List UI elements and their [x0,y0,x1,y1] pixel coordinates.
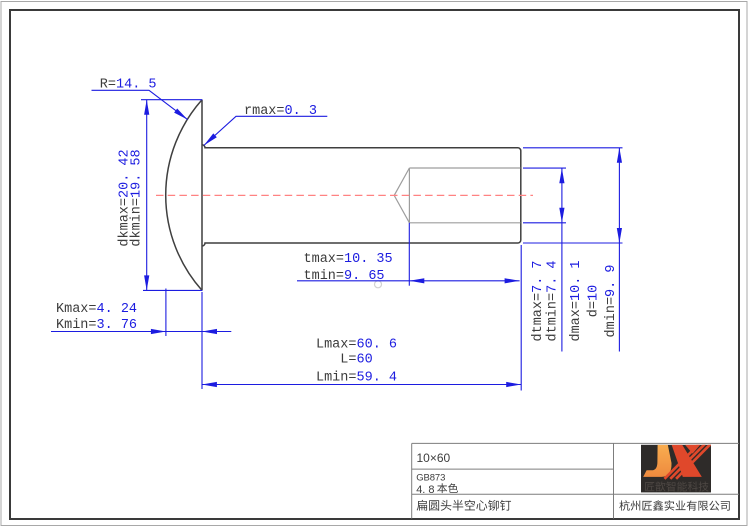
t extension line [408,223,410,286]
svg-text:Lmin=59. 4: Lmin=59. 4 [316,371,397,386]
svg-text:Kmin=3. 76: Kmin=3. 76 [56,318,137,333]
dk extension line top [141,99,202,101]
logo X stripes [665,444,700,479]
logo X main stroke [672,445,702,477]
title block row line 2 [412,493,739,495]
title block top line [412,442,739,444]
text product name [417,500,511,511]
svg-text:dkmin=19. 58: dkmin=19. 58 [129,149,144,246]
svg-text:rmax=0. 3: rmax=0. 3 [244,104,317,119]
title block left line [411,443,413,518]
dk extension line bottom [143,289,202,291]
R dimension leader [92,90,188,119]
hole bottom edge [409,222,520,224]
rivet head arc [166,100,202,291]
svg-text:Kmax=4. 24: Kmax=4. 24 [56,302,137,317]
rivet shank outline with fillets [202,145,521,246]
L dimension line [202,384,521,386]
svg-text:dtmin=7. 4: dtmin=7. 4 [545,260,560,341]
d dimension line [618,148,620,352]
logo letter J [643,445,671,477]
logo subtitle [645,481,708,491]
hole cone base line [408,168,410,223]
rmax dimension leader [204,116,327,145]
K dimension line [51,331,231,333]
title block divider [613,443,615,518]
L extension line right [520,245,522,391]
dt extension lines [523,167,566,169]
svg-text:d=10: d=10 [587,285,602,317]
text bense [437,483,458,493]
svg-text:dmax=10. 1: dmax=10. 1 [569,260,584,341]
svg-text:tmin=9. 65: tmin=9. 65 [304,269,385,284]
svg-text:Lmax=60. 6: Lmax=60. 6 [316,338,397,353]
svg-text:10×60: 10×60 [417,451,451,465]
artifact circle [375,281,382,288]
d extension lines [523,147,623,149]
logo X tip triangle [685,445,700,454]
svg-text:dtmax=7. 7: dtmax=7. 7 [531,260,546,341]
svg-text:L=60: L=60 [340,353,372,368]
svg-text:4. 8: 4. 8 [416,484,434,496]
dk dimension line [146,100,148,291]
title block row line 1 [412,468,614,470]
svg-text:dmin=9. 9: dmin=9. 9 [604,265,619,338]
hole drill cone [394,168,409,223]
t dimension line [297,280,520,282]
K extension line (arc apex) [165,289,167,337]
centerline [156,194,533,196]
hole top edge [409,167,520,169]
svg-text:R=14. 5: R=14. 5 [100,77,157,92]
svg-text:GB873: GB873 [416,473,445,484]
rivet head bearing face [201,100,203,291]
K/L extension line (head face) [201,292,203,389]
text company name [619,500,729,510]
dt dimension line [561,168,563,351]
svg-text:tmax=10. 35: tmax=10. 35 [304,252,393,267]
